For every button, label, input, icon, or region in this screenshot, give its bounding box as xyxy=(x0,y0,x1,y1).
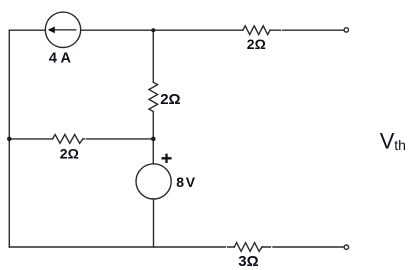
voltage source V1 circle xyxy=(136,164,171,199)
svg-text:2Ω: 2Ω xyxy=(60,146,79,162)
svg-text:V: V xyxy=(380,129,395,154)
svg-text:th: th xyxy=(394,137,406,153)
svg-text:V: V xyxy=(186,174,196,190)
wire: bottom rail after resistor to terminal xyxy=(262,246,344,248)
resistor R2 2ohm vertical (zigzag) xyxy=(149,82,158,111)
wire: middle rail left segment xyxy=(9,138,52,140)
svg-text:4 A: 4 A xyxy=(49,51,72,67)
current source I1 circle xyxy=(45,12,80,47)
resistor R4 3ohm bottom (zigzag) xyxy=(234,243,262,252)
resistor R1 2ohm top (zigzag) xyxy=(243,26,270,35)
wire: top rail left of current source xyxy=(9,29,45,31)
svg-text:8: 8 xyxy=(176,174,184,190)
wire: left vertical rail xyxy=(8,30,10,247)
voltage source V1 plus sign xyxy=(162,154,172,163)
terminal node b (bottom right open circle) xyxy=(344,245,348,249)
wire: middle rail right segment to center node xyxy=(83,138,153,140)
svg-text:2Ω: 2Ω xyxy=(247,36,266,52)
wire: top rail from current source to resistor 2ohm top xyxy=(81,29,243,31)
wire: center vertical from resistor to middle node xyxy=(152,112,154,164)
wire: top rail after resistor to terminal xyxy=(270,29,344,31)
current source I1 arrow xyxy=(51,29,77,31)
resistor R3 2ohm middle-left (zigzag) xyxy=(53,135,83,144)
terminal node a (top right open circle) xyxy=(344,28,348,32)
svg-text:2Ω: 2Ω xyxy=(160,91,180,108)
current source I1 arrowhead xyxy=(48,27,55,34)
junction node at top center xyxy=(151,28,155,32)
wire: center vertical from voltage source to bottom rail xyxy=(153,199,155,247)
wire: center vertical from top node to resistor xyxy=(152,30,154,82)
junction node at middle center xyxy=(151,137,156,142)
wire: bottom rail left segment xyxy=(9,246,234,248)
junction node at middle left xyxy=(7,137,12,142)
svg-text:3Ω: 3Ω xyxy=(238,253,258,270)
